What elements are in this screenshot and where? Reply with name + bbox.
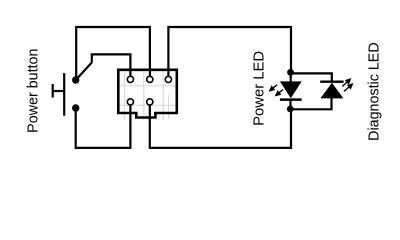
LED D2 triangle: [320, 83, 343, 99]
switch S1 body: [118, 70, 177, 118]
pushbutton SW1 plunger cap: [52, 84, 54, 98]
svg-text:Power LED: Power LED: [251, 51, 267, 126]
LED D2 emission arrow 1: [343, 79, 351, 86]
wire: top stub from node A to diagnostic LED cathode: [291, 73, 332, 80]
switch S1 pin 4: [127, 99, 133, 105]
svg-text:Power button: Power button: [26, 49, 42, 133]
svg-text:Diagnostic LED: Diagnostic LED: [366, 42, 382, 141]
LED D2 cathode bar: [320, 80, 343, 82]
pushbutton SW1 actuator bar: [63, 73, 65, 116]
wire: bottom stub from diagnostic LED anode to node B: [290, 98, 331, 109]
wire: switch top contact up and over to S1 pin 2: [76, 27, 150, 80]
wire: S1 pin 5 down and right to LED cathode rail: [150, 102, 291, 148]
LED D1 triangle: [280, 81, 302, 98]
LED D1 emission arrow 1: [270, 85, 277, 91]
wire: S1 pin 4 down and left to switch bottom contact: [76, 102, 131, 148]
switch S1 pin 3: [165, 76, 171, 82]
wire: switch lever corner over to S1 pin 1: [92, 54, 131, 79]
wire: S1 pin 3 up and over to power LED anode: [168, 27, 291, 79]
pushbutton SW1 plunger stem: [53, 90, 64, 92]
switch S1 pin 1: [127, 76, 133, 82]
switch S1 pin 5: [147, 99, 153, 105]
LED D2 emission arrow 2: [344, 84, 352, 91]
node A junction dot: [287, 69, 294, 76]
switch S1 pin 2: [147, 76, 153, 82]
LED D1 cathode lead: [289, 100, 291, 109]
pushbutton SW1 top contact: [72, 76, 79, 83]
pushbutton SW1 bottom contact: [72, 104, 79, 111]
LED D1 emission arrow 2: [276, 90, 283, 96]
node B junction dot: [287, 106, 294, 113]
pushbutton SW1 lever: [76, 63, 92, 81]
LED D1 cathode bar: [280, 98, 302, 101]
LED D1 anode lead: [290, 73, 292, 81]
